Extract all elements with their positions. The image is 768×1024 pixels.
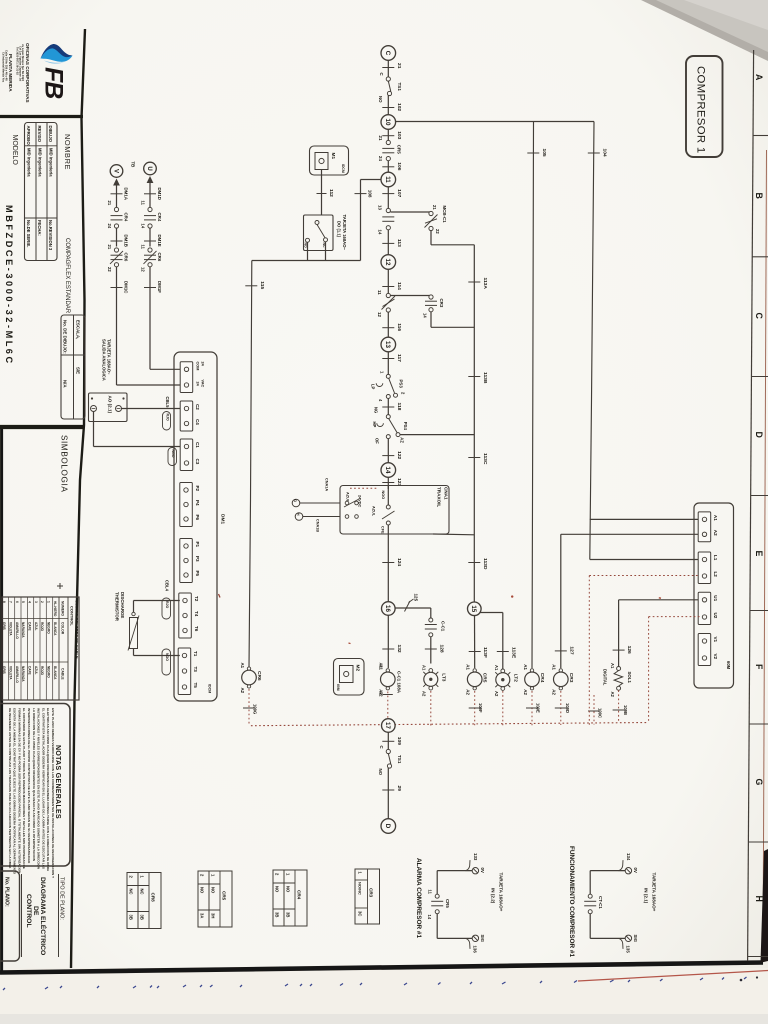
tick DM1C <box>111 287 123 289</box>
svg-text:CR6: CR6 <box>256 671 262 681</box>
svg-text:NGO: NGO <box>165 653 169 661</box>
svg-text:7: 7 <box>9 601 13 603</box>
svg-text:C-C1: C-C1 <box>441 621 446 632</box>
section divider below model block <box>0 425 84 429</box>
svg-text:102: 102 <box>396 103 402 111</box>
module DM1 outline <box>174 352 217 701</box>
wire 108 branch from node 11 <box>361 179 382 181</box>
svg-text:11: 11 <box>384 176 391 183</box>
svg-text:NO: NO <box>378 769 383 776</box>
svg-text:C-C1 108A: C-C1 108A <box>396 671 401 694</box>
svg-text:A1: A1 <box>523 664 528 670</box>
svg-text:Tel 3633-0571 36-31-52: Tel 3633-0571 36-31-52 <box>16 47 20 75</box>
terminal pair A1 A2 <box>698 512 711 542</box>
svg-text:132: 132 <box>396 645 402 653</box>
svg-text:RJO: RJO <box>165 414 169 421</box>
tick wire 128 <box>425 648 437 650</box>
red dashed bus <box>251 723 649 726</box>
svg-text:P3: P3 <box>195 556 200 562</box>
svg-text:M1: M1 <box>330 153 336 160</box>
notas generales box <box>0 704 70 867</box>
svg-text:107: 107 <box>396 189 402 197</box>
svg-text:105: 105 <box>541 149 547 157</box>
coil CR4 <box>530 669 533 672</box>
svg-text:109F: 109F <box>478 703 483 713</box>
wire 127 from A2 to CR3 coil <box>561 533 700 535</box>
lamp LT3 <box>429 669 433 673</box>
svg-text:U2: U2 <box>713 613 718 619</box>
right paper edge line <box>763 150 767 960</box>
red dashed drop CR4 109E <box>531 691 533 725</box>
red dashed wire U2 <box>649 616 700 618</box>
svg-text:B: B <box>754 193 764 199</box>
svg-text:BLANCA: BLANCA <box>53 666 57 680</box>
tick wire 21 <box>382 67 394 69</box>
tick wire 122 <box>382 455 394 457</box>
wire <box>116 186 118 208</box>
stray red speck <box>511 595 513 597</box>
tick wire 115 <box>245 285 257 287</box>
svg-text:21: 21 <box>432 205 437 210</box>
wire MCB branch down to 113 line <box>430 231 432 245</box>
svg-text:60M: 60M <box>336 684 340 691</box>
tick wire 118 <box>382 406 394 408</box>
svg-text:21: 21 <box>378 136 383 141</box>
svg-text:128: 128 <box>438 645 444 653</box>
contact inside CNA1 row G <box>345 501 349 505</box>
tick wire 103 <box>382 135 394 137</box>
svg-text:OFICINAS CORPORATIVAS: OFICINAS CORPORATIVAS <box>25 43 30 103</box>
contact CR6 chain U NC <box>148 248 152 252</box>
svg-text:A2: A2 <box>523 689 528 695</box>
arrow <box>113 179 120 186</box>
svg-text:MID Ingenieria: MID Ingenieria <box>49 148 54 177</box>
svg-text:103: 103 <box>396 131 402 139</box>
svg-text:2: 2 <box>40 601 44 603</box>
svg-text:NEGRO: NEGRO <box>47 622 51 634</box>
contact table CR5 <box>198 871 232 927</box>
scan corner shadow top-right <box>641 0 768 61</box>
svg-text:14: 14 <box>141 224 146 229</box>
svg-text:A2: A2 <box>494 691 499 697</box>
svg-text:CFE: CFE <box>381 526 385 534</box>
contact table CR8 <box>127 873 161 929</box>
wire bus 115 horizontal <box>252 260 361 262</box>
svg-text:C4: C4 <box>195 419 200 425</box>
svg-text:DM1E: DM1E <box>157 235 162 247</box>
capacitor CT-C1 in funcionamiento block <box>588 894 592 898</box>
node 13 <box>381 337 396 352</box>
svg-text:H: H <box>296 513 300 516</box>
svg-text:NO: NO <box>378 96 383 103</box>
svg-text:ESCALA,: ESCALA, <box>76 320 81 339</box>
svg-text:E: E <box>754 551 764 557</box>
svg-text:CABLE: CABLE <box>61 668 65 680</box>
svg-text:15: 15 <box>470 605 477 612</box>
svg-text:ALARMA COMPRESOR #1: ALARMA COMPRESOR #1 <box>415 858 422 938</box>
solenoid SOL1 <box>617 667 621 671</box>
svg-text:A2: A2 <box>552 689 557 695</box>
wire card outputs to bus <box>307 242 309 260</box>
svg-text:Cd Industrial Merida Yuc: Cd Industrial Merida Yuc <box>2 52 6 83</box>
svg-text:A1: A1 <box>494 665 499 671</box>
svg-text:109D: 109D <box>565 703 570 713</box>
svg-text:CR5: CR5 <box>222 891 227 901</box>
contact 13-14 unnamed <box>386 208 390 212</box>
svg-text:CR3: CR3 <box>369 888 374 898</box>
tick DM1B <box>111 240 123 242</box>
red dashed drop CR3 109D <box>560 691 562 725</box>
svg-text:116: 116 <box>396 323 402 331</box>
svg-text:FUNCIONAMIENTO COMPRESOR #1: FUNCIONAMIENTO COMPRESOR #1 <box>568 846 575 957</box>
svg-text:C: C <box>754 313 764 320</box>
wire 104 feeder <box>590 122 594 560</box>
svg-text:M B F Z D C E - 3 0 0 0 - 3 2: M B F Z D C E - 3 0 0 0 - 3 2 - M L 6 C <box>4 205 14 363</box>
svg-text:113F: 113F <box>482 647 488 658</box>
svg-text:GRIS: GRIS <box>2 666 6 674</box>
svg-text:LP: LP <box>371 384 376 390</box>
svg-text:3B: 3B <box>129 915 134 920</box>
svg-text:FECHA:: FECHA: <box>37 220 42 236</box>
svg-text:F: F <box>754 664 764 670</box>
svg-text:109: 109 <box>396 737 402 745</box>
svg-text:A2: A2 <box>422 691 427 697</box>
svg-text:NARANJA: NARANJA <box>21 622 25 638</box>
svg-text:NGO: NGO <box>381 491 385 500</box>
svg-text:60M: 60M <box>726 661 731 670</box>
svg-text:108: 108 <box>368 190 373 198</box>
wire <box>387 269 389 293</box>
svg-text:CT-C1: CT-C1 <box>598 896 603 909</box>
svg-text:L2: L2 <box>713 572 718 578</box>
svg-text:11: 11 <box>141 245 146 250</box>
svg-text:109G: 109G <box>253 704 258 714</box>
connector circle U <box>144 162 157 175</box>
svg-text:A: A <box>754 74 764 81</box>
red dashed stub left of CNA1 <box>350 487 378 489</box>
svg-text:CR4: CR4 <box>157 213 162 222</box>
device box digital output card DO 1.1 <box>304 215 334 251</box>
svg-text:A2: A2 <box>466 689 471 695</box>
svg-text:TS1: TS1 <box>397 755 402 764</box>
svg-text:THERMISTOR: THERMISTOR <box>114 592 119 622</box>
svg-text:21: 21 <box>107 245 112 250</box>
svg-text:ESCRITA DE LA MISMA EL CONTRAT: ESCRITA DE LA MISMA EL CONTRATISTA QUE E… <box>13 708 17 875</box>
bottom scanner edge band <box>0 1014 768 1024</box>
svg-text:24: 24 <box>107 224 112 229</box>
svg-text:TS1: TS1 <box>397 83 402 92</box>
contact table CR3 <box>355 869 380 924</box>
svg-text:IDCM: IDCM <box>341 164 345 173</box>
terminal T2 T4 T6 <box>179 593 192 638</box>
drawing left border <box>0 426 3 971</box>
wire <box>387 399 389 415</box>
svg-text:CR4: CR4 <box>297 890 302 900</box>
arrow <box>147 176 154 183</box>
svg-text:CR3: CR3 <box>439 299 444 308</box>
svg-text:0V: 0V <box>480 868 485 873</box>
wire <box>387 96 389 115</box>
wire rail below node 17 <box>387 732 389 749</box>
svg-text:134: 134 <box>626 853 631 861</box>
svg-text:A1: A1 <box>610 663 615 669</box>
connector circle G CNA1A <box>292 499 300 507</box>
svg-text:CR5: CR5 <box>482 673 488 683</box>
svg-text:21: 21 <box>107 201 112 206</box>
wire 105 feeder <box>532 122 534 669</box>
tick wire 113E <box>497 651 509 653</box>
svg-text:NG: NG <box>374 407 379 413</box>
svg-text:IDCM: IDCM <box>208 684 212 693</box>
tick wire 113F <box>469 651 481 653</box>
svg-text:13: 13 <box>378 205 383 210</box>
svg-text:NO: NO <box>200 887 205 894</box>
svg-text:DO (1.1): DO (1.1) <box>336 221 341 238</box>
wire <box>116 228 118 247</box>
tick wire 29 <box>382 789 394 791</box>
svg-text:ESTE PLANO DEBERA VERIFICARSE: ESTE PLANO DEBERA VERIFICARSE CON LAS CO… <box>51 708 55 879</box>
scan red line below border right side <box>578 971 768 982</box>
svg-text:A2: A2 <box>610 692 615 698</box>
contact CR4 chain V <box>114 207 118 211</box>
svg-text:PS3: PS3 <box>398 380 403 389</box>
wire M1 to card contact <box>321 170 323 216</box>
svg-text:T5: T5 <box>193 683 198 689</box>
svg-text:CR6: CR6 <box>157 253 162 262</box>
svg-text:DIAGRAMA ELÉCTRICO: DIAGRAMA ELÉCTRICO <box>39 877 48 955</box>
svg-text:CR6: CR6 <box>123 253 128 262</box>
thermistor symbol <box>130 618 138 649</box>
svg-text:V1: V1 <box>713 637 718 643</box>
svg-text:LT2: LT2 <box>512 674 518 683</box>
title box COMPRESOR 1 <box>686 56 723 157</box>
wire branch 125 to C-C1 contact <box>395 607 431 609</box>
red dashed drop CR5 109F <box>474 691 476 725</box>
terminal T1 T3 T5 <box>178 648 191 695</box>
svg-text:113E: 113E <box>510 647 516 659</box>
contact CR5 21-24 <box>386 140 390 144</box>
svg-text:14: 14 <box>423 313 428 318</box>
svg-text:DM1B: DM1B <box>123 235 128 247</box>
svg-text:MODELO: MODELO <box>11 135 18 166</box>
title column divider line <box>71 29 85 968</box>
wire CR3 branch to 113 line <box>430 312 432 328</box>
svg-text:3A: 3A <box>200 913 205 918</box>
wire <box>387 352 389 375</box>
wire to terminal A1 <box>590 518 700 520</box>
svg-text:AZUL: AZUL <box>34 666 38 675</box>
tick wire 107 <box>382 193 394 195</box>
row label column line (right border) <box>748 50 754 961</box>
svg-text:TARJETA 168AO+: TARJETA 168AO+ <box>499 873 504 912</box>
svg-text:DM1D: DM1D <box>157 188 162 200</box>
svg-text:A1: A1 <box>713 515 718 521</box>
wire chain U to COM terminal <box>150 368 180 370</box>
stray red speck <box>349 642 351 645</box>
contact 11-12 NC <box>386 293 390 297</box>
svg-text:CAFE: CAFE <box>28 666 32 675</box>
svg-text:113B: 113B <box>482 372 488 384</box>
red dashed drop LT3 <box>430 691 432 726</box>
svg-text:AZUL: AZUL <box>372 506 376 517</box>
switch TS1 top <box>386 77 390 81</box>
node 14 <box>381 463 396 478</box>
contact CR5 11-14 in alarma block <box>435 894 439 898</box>
svg-text:0V: 0V <box>633 868 638 873</box>
connector circle V <box>110 165 123 178</box>
svg-text:A2: A2 <box>240 688 245 694</box>
terminal C2 C4 <box>180 401 193 431</box>
svg-text:CBL5: CBL5 <box>165 397 170 409</box>
svg-text:D: D <box>384 824 391 829</box>
svg-text:AZ: AZ <box>400 437 405 443</box>
tick wire 113D <box>468 562 480 564</box>
tick DM1E <box>144 240 156 242</box>
svg-text:C: C <box>384 51 391 56</box>
terminal 24 COM VAC 24 <box>180 362 193 393</box>
svg-text:V: V <box>112 169 118 173</box>
svg-text:NOMBRE: NOMBRE <box>63 134 72 170</box>
wire <box>149 228 151 247</box>
svg-text:U1: U1 <box>713 595 718 601</box>
tick wire 127 <box>555 650 567 652</box>
wire 113 branch line vertical <box>473 245 475 602</box>
svg-text:MID Ingenieria: MID Ingenieria <box>27 148 32 177</box>
svg-text:P4: P4 <box>195 500 200 506</box>
contact CR6 chain V NC <box>114 248 118 252</box>
svg-text:A2: A2 <box>379 691 384 697</box>
svg-text:3H: 3H <box>211 913 216 918</box>
svg-text:TARJETA 168AO+: TARJETA 168AO+ <box>652 873 657 912</box>
wire T2 to thermistor <box>134 600 180 602</box>
svg-text:P2: P2 <box>195 486 200 492</box>
svg-text:No. PLANO:: No. PLANO: <box>4 877 10 907</box>
svg-text:CNA1B: CNA1B <box>316 519 320 532</box>
svg-text:113D: 113D <box>482 558 488 570</box>
svg-text:A1: A1 <box>552 664 557 670</box>
svg-text:24VDC: 24VDC <box>358 495 362 507</box>
node C <box>381 46 396 61</box>
svg-text:12: 12 <box>384 259 391 266</box>
wire branch to MCB-C1 <box>390 211 431 213</box>
svg-text:HL-HIERO: HL-HIERO <box>53 601 57 617</box>
svg-text:AMARILLO: AMARILLO <box>15 622 19 639</box>
svg-text:NO: NO <box>211 887 216 894</box>
row letter ticks <box>753 135 768 137</box>
svg-text:NUMERO: NUMERO <box>61 601 65 616</box>
svg-text:P5: P5 <box>195 571 200 577</box>
wire node15 to CR5 coil <box>474 616 476 668</box>
svg-text:IN (2.2): IN (2.2) <box>491 888 496 904</box>
contact table CR4 <box>273 870 307 926</box>
svg-text:PLANTA MERIDA: PLANTA MERIDA <box>8 54 13 92</box>
tick wire 112 <box>317 193 327 195</box>
contact MCB-C1 21-22 NC <box>429 211 433 215</box>
svg-text:V2: V2 <box>713 654 718 660</box>
wire thermistor to T1 <box>133 649 135 656</box>
svg-text:104: 104 <box>601 149 607 157</box>
svg-text:No. DE DIBUJO:: No. DE DIBUJO: <box>63 320 68 354</box>
svg-text:REVISO: REVISO <box>37 126 42 143</box>
svg-text:115: 115 <box>259 281 265 289</box>
svg-text:CR4: CR4 <box>123 213 128 222</box>
tick wire 113 <box>382 242 394 244</box>
svg-text:8: 8 <box>2 601 6 603</box>
svg-text:3B: 3B <box>275 912 280 917</box>
svg-text:C2: C2 <box>195 404 200 410</box>
svg-text:CONTROL: CONTROL <box>25 894 32 928</box>
svg-text:CBL4: CBL4 <box>165 580 170 592</box>
svg-text:A1: A1 <box>240 663 245 669</box>
device box M1 <box>310 146 349 175</box>
svg-text:A1: A1 <box>422 665 427 671</box>
contact CR4 chain U <box>148 207 152 211</box>
tick wire 106 <box>382 166 394 168</box>
tick wire 113C <box>468 457 480 459</box>
tick wire 124 <box>382 562 394 564</box>
svg-text:136: 136 <box>472 946 477 954</box>
node 10 <box>381 115 396 130</box>
node 12 <box>381 255 396 270</box>
svg-text:133: 133 <box>473 853 478 861</box>
wire 126 from U1 to SOL1 <box>619 599 700 601</box>
tick wire 123 <box>382 482 394 484</box>
svg-text:NEGRO: NEGRO <box>47 666 51 678</box>
svg-text:T4: T4 <box>194 611 199 617</box>
svg-text:U: U <box>146 166 152 170</box>
svg-text:No.DE SERIE.: No.DE SERIE. <box>26 220 31 247</box>
svg-text:DM1C: DM1C <box>123 281 128 294</box>
svg-text:118: 118 <box>396 403 402 411</box>
svg-text:AZUL: AZUL <box>34 622 38 631</box>
svg-text:13: 13 <box>384 341 391 348</box>
svg-text:NO/NC: NO/NC <box>358 882 363 895</box>
svg-text:G: G <box>754 779 764 786</box>
pressure switch PS4 HP <box>386 415 390 419</box>
wire feeder to branches 104 105 <box>396 121 594 123</box>
coil CR5 <box>473 669 476 672</box>
red dashed drop LT2 <box>502 691 504 725</box>
svg-text:113A: 113A <box>482 278 488 290</box>
scan blue ink specks below border <box>3 988 5 990</box>
svg-text:16: 16 <box>384 605 391 612</box>
tick wire 105 <box>527 152 539 154</box>
svg-text:NC: NC <box>129 889 134 895</box>
svg-text:BLANCA: BLANCA <box>53 622 57 636</box>
svg-text:C3: C3 <box>195 459 200 465</box>
svg-text:NC: NC <box>140 889 145 895</box>
svg-text:12: 12 <box>377 312 382 317</box>
title table rows box <box>25 123 58 261</box>
svg-text:MCB-C1: MCB-C1 <box>442 206 447 224</box>
svg-text:M2: M2 <box>355 665 361 672</box>
svg-text:INTERPRETACIONES DE EL PROPIO: INTERPRETACIONES DE EL PROPIO CONTRATIST… <box>27 708 31 864</box>
svg-text:DM1A: DM1A <box>123 188 128 201</box>
tick wire 117 <box>382 358 394 360</box>
tick DM1A <box>111 193 123 195</box>
svg-text:4: 4 <box>28 601 32 603</box>
svg-text:TIPO DE PLANO:: TIPO DE PLANO: <box>59 877 65 920</box>
connector circle H CNA1B <box>295 513 303 521</box>
red dashed drop CR6 109G <box>248 689 250 726</box>
svg-text:109E: 109E <box>536 703 541 713</box>
svg-text:135: 135 <box>625 946 630 954</box>
svg-text:FB: FB <box>40 67 68 99</box>
svg-text:113: 113 <box>396 239 402 247</box>
node 11 <box>381 172 396 187</box>
svg-text:NO: NO <box>286 886 291 893</box>
svg-text:22: 22 <box>107 267 112 272</box>
